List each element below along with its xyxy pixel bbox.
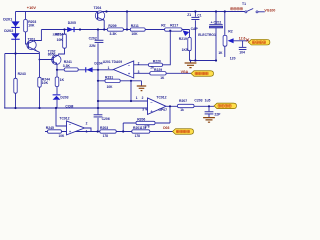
resistor R207: [178, 99, 195, 112]
ground GND1 on bus: [185, 61, 197, 68]
op-amp U202 right: [136, 95, 167, 114]
svg-text:2: 2: [142, 96, 144, 100]
svg-text:3.3K: 3.3K: [110, 32, 118, 36]
net label D03: [163, 126, 169, 130]
wire T201 emitter to T202 base column: [36, 51, 40, 61]
junction dots top rail: [105, 10, 225, 12]
svg-text:8050: 8050: [48, 53, 56, 57]
svg-text:R2: R2: [161, 23, 165, 27]
resistor R220: [149, 59, 163, 69]
diode D203: [53, 94, 69, 100]
svg-text:178: 178: [135, 134, 141, 138]
svg-text:R229: R229: [154, 68, 162, 72]
net label VGA: [181, 70, 189, 74]
transistor T201: [27, 37, 37, 51]
junction dots middle: [56, 69, 132, 109]
wire node row B y=29.5: [41, 29, 189, 31]
resistor R211: [130, 24, 145, 36]
svg-text:VG100: VG100: [264, 8, 275, 12]
svg-text:D204: D204: [94, 62, 102, 66]
svg-text:D203: D203: [60, 95, 68, 99]
svg-text:R231: R231: [105, 75, 113, 79]
wire COM rail into U202 + input jog: [146, 108, 148, 110]
svg-text:3.3K: 3.3K: [63, 64, 71, 68]
net flag current feedback: [191, 71, 214, 77]
svg-text:2: 2: [86, 122, 88, 126]
diode D201: [3, 17, 20, 28]
svg-text:VGA: VGA: [181, 70, 189, 74]
svg-text:3: 3: [138, 70, 140, 74]
net flag speed adjust: [248, 39, 270, 45]
resistor R203 vertical: [24, 20, 37, 32]
svg-text:COM: COM: [65, 104, 73, 108]
wire left return column: [4, 54, 6, 109]
svg-text:10K: 10K: [57, 38, 64, 42]
ground GND3: [203, 118, 215, 123]
svg-text:R219: R219: [179, 37, 187, 41]
svg-text:R203: R203: [100, 126, 108, 130]
svg-text:10K: 10K: [107, 85, 114, 89]
diode D202: [4, 29, 19, 40]
resistor R243 vertical: [14, 72, 26, 93]
net label COM: [65, 104, 73, 108]
wire U202 output row to net flag: [166, 105, 214, 107]
wire C211 electrolytic column: [215, 12, 217, 61]
svg-text:22P: 22P: [214, 112, 221, 116]
wire T201 collector to node row: [35, 30, 42, 41]
svg-text:10K: 10K: [131, 32, 138, 36]
svg-text:10K: 10K: [59, 134, 66, 138]
svg-text:TC912: TC912: [59, 116, 69, 120]
svg-text:R206: R206: [137, 117, 145, 121]
wire T202 collector to R204 column: [59, 30, 65, 55]
wire T202 emitter / D203 column: [56, 64, 58, 108]
wire C203 branch column: [208, 106, 210, 117]
svg-text:CAP: CAP: [191, 27, 199, 31]
svg-text:1: 1: [108, 66, 110, 70]
svg-text:+ C211: + C211: [211, 21, 222, 25]
value label 220R: [53, 32, 67, 36]
svg-text:1K: 1K: [218, 51, 223, 55]
net flag voltage feedback: [214, 103, 237, 109]
svg-text:R245: R245: [46, 126, 54, 130]
wire switch T1 output segment: [258, 11, 265, 13]
wire bottom output row y=131.5: [45, 131, 173, 133]
svg-text:1k: 1k: [180, 108, 184, 112]
resistor R229: [150, 68, 166, 80]
transistor T202: [48, 49, 61, 64]
svg-text:104: 104: [239, 50, 245, 54]
resistor R204 vertical: [55, 32, 66, 48]
wire ground bus y=62.7: [190, 60, 217, 62]
resistor R231: [105, 75, 120, 89]
svg-text:C203: C203: [194, 99, 202, 103]
svg-text:ELECTRO1: ELECTRO1: [198, 33, 216, 37]
wire left op-amp output stub: [85, 128, 92, 132]
svg-text:R209: R209: [108, 24, 116, 28]
op-amp U203 left: [59, 116, 87, 134]
wire R243 column: [15, 54, 17, 109]
svg-text:1K: 1K: [160, 76, 165, 80]
capacitor Z1: [187, 13, 202, 31]
wire U201 non-inverting input row to net flag: [134, 72, 191, 74]
svg-text:T204: T204: [94, 6, 102, 10]
svg-text:OP07: OP07: [158, 108, 167, 112]
svg-text:D03: D03: [163, 126, 169, 130]
power label +10V: [27, 5, 37, 10]
wire right pot column from T1 node: [224, 12, 226, 58]
wire right pot wiper row to net flag: [234, 40, 249, 42]
wire U201 inverting input to pot wiper column: [134, 31, 171, 65]
net flag speed set: [173, 129, 194, 135]
wire T201 emitter junction row: [5, 53, 40, 55]
svg-text:C1: C1: [197, 13, 201, 17]
ground GND2: [137, 86, 146, 91]
junction dots row B: [63, 28, 171, 31]
wire rail drop to row B at x=127: [126, 12, 128, 30]
wire R219 column: [182, 30, 190, 61]
svg-text:T201: T201: [28, 37, 36, 41]
svg-text:3: 3: [142, 108, 144, 112]
wire U202 feedback loop via R206: [123, 106, 170, 131]
svg-text:R220: R220: [153, 59, 161, 63]
svg-text:D201: D201: [3, 17, 12, 21]
capacitor C206: [94, 114, 110, 121]
svg-text:1K: 1K: [60, 78, 65, 82]
value label 1K right pot: [218, 51, 223, 55]
resistor R241: [63, 60, 78, 71]
junction dots bottom row: [97, 130, 125, 132]
capacitor C203: [194, 99, 221, 117]
wire T202 base to R244 column: [40, 60, 54, 109]
svg-text:U201 TDA09: U201 TDA09: [103, 60, 122, 64]
svg-text:12.6: 12.6: [239, 37, 246, 41]
svg-text:Z1: Z1: [187, 13, 191, 17]
resistor R203 bottom: [100, 126, 116, 138]
wire top +10V power rail: [16, 11, 245, 13]
svg-text:D205: D205: [68, 21, 76, 25]
junction dots output row: [169, 105, 210, 107]
junction dots left section: [4, 52, 57, 109]
svg-text:1: 1: [136, 96, 138, 100]
svg-text:10K: 10K: [42, 81, 49, 85]
wire bottom COM rail: [5, 107, 148, 109]
svg-text:10K: 10K: [28, 24, 35, 28]
svg-text:C206: C206: [102, 117, 110, 121]
wire Z1 capacitor column: [194, 12, 196, 61]
diode D205: [67, 21, 76, 32]
potentiometer R217: [161, 23, 189, 36]
diode D204: [85, 62, 102, 73]
transistor T204: [94, 6, 107, 20]
capacitor C202: [89, 36, 104, 48]
svg-text:1: 1: [86, 130, 88, 134]
svg-text:120: 120: [230, 56, 236, 60]
op-amp U201: [103, 60, 140, 78]
svg-text:1u5: 1u5: [205, 99, 211, 103]
svg-text:T1: T1: [242, 2, 246, 6]
capacitor C104: [239, 47, 247, 55]
resistor R206 feedback: [136, 117, 155, 128]
wire C104 stem: [242, 41, 244, 47]
voltage annotation 12.6: [239, 37, 246, 41]
wire D204 row from emitter node to U201 output: [57, 69, 113, 71]
svg-text:R217: R217: [170, 23, 178, 27]
resistor R201 bottom: [132, 126, 150, 138]
wire U202 inverting input row: [98, 100, 148, 102]
resistor R242 vertical: [55, 77, 64, 87]
svg-text:1K5: 1K5: [182, 48, 188, 52]
svg-text:TC912: TC912: [156, 95, 166, 99]
wire C202/C206 column: [97, 30, 99, 132]
svg-text:R204: R204: [55, 32, 63, 36]
resistor R219 vertical: [179, 37, 191, 52]
electrolytic capacitor C211: [198, 21, 223, 38]
resistor R245: [46, 126, 65, 138]
svg-text:+10V: +10V: [27, 5, 37, 10]
resistor R209: [107, 24, 123, 36]
resistor R244 vertical: [38, 77, 50, 87]
svg-text:R211: R211: [131, 24, 139, 28]
svg-text:178: 178: [141, 126, 147, 130]
wire D201/D202 diode column: [15, 12, 17, 54]
label power switch (CJK): [231, 8, 243, 10]
no-ERC cross: [246, 39, 249, 42]
svg-text:C202: C202: [89, 36, 97, 40]
svg-text:R243: R243: [18, 72, 26, 76]
wire R203 column to T201 base: [26, 12, 29, 45]
wire R231 row with ground stem: [98, 81, 142, 86]
net label VG100: [264, 8, 275, 12]
svg-text:178: 178: [103, 134, 109, 138]
svg-text:D202: D202: [4, 29, 13, 33]
svg-text:R207: R207: [179, 99, 187, 103]
wire x=131 column R231 row to U202 inverting input: [130, 81, 132, 101]
svg-text:2: 2: [138, 61, 140, 65]
svg-text:22N: 22N: [89, 44, 96, 48]
wire T204 emitter column: [103, 20, 105, 29]
svg-text:R2: R2: [228, 30, 232, 34]
wire left op-amp inverting input feed: [56, 108, 67, 126]
potentiometer R2 vertical right: [223, 30, 235, 61]
ground bus dots: [190, 59, 217, 61]
switch T1: [242, 2, 258, 13]
